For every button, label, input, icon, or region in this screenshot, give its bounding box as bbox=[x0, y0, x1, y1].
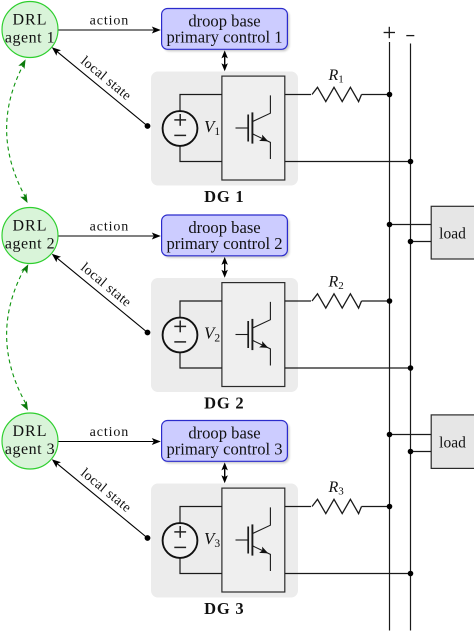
wire negative bus to load 1 bbox=[411, 241, 432, 243]
label local state 1 bbox=[77, 54, 133, 104]
junction dot DG 3-negative bus bbox=[408, 571, 414, 577]
wire source bottom to converter DG 2 bbox=[180, 352, 222, 368]
resistor R3 bbox=[312, 499, 362, 513]
converter box DG 1 bbox=[222, 76, 285, 180]
wire resistor R1 to positive bus bbox=[362, 94, 390, 96]
svg-text:local state: local state bbox=[77, 54, 133, 104]
junction dot DG 2-negative bus bbox=[408, 365, 414, 371]
wire source bottom to converter DG 3 bbox=[180, 558, 222, 574]
action arrow agent 2 to control 2 bbox=[59, 233, 161, 240]
droop base primary control 2 box bbox=[162, 215, 290, 258]
droop base primary control 3 box bbox=[162, 421, 290, 464]
label - (negative bus) bbox=[406, 35, 414, 37]
local state tap dot DG 1 bbox=[145, 123, 151, 129]
svg-text:primary control 3: primary control 3 bbox=[166, 439, 282, 458]
label local state 2 bbox=[77, 260, 133, 310]
converter box DG 2 bbox=[222, 283, 285, 387]
local state tap dot DG 2 bbox=[145, 330, 151, 336]
local state tap dot DG 3 bbox=[145, 535, 151, 541]
wire converter to resistor R2 bbox=[285, 300, 311, 302]
DRL agent 1 bbox=[2, 2, 58, 58]
junction dot R3-positive bus bbox=[387, 504, 393, 510]
local state arrow DG 2 to agent 2 bbox=[52, 254, 148, 333]
wire converter DG 2 to negative bus bbox=[285, 367, 411, 369]
svg-text:DG 3: DG 3 bbox=[204, 599, 244, 618]
wire positive bus to load 1 bbox=[390, 224, 432, 226]
junction dot R1-positive bus bbox=[387, 92, 393, 98]
svg-text:load: load bbox=[439, 225, 466, 242]
svg-text:agent 3: agent 3 bbox=[5, 441, 55, 458]
positive DC bus rail bbox=[389, 42, 391, 631]
label droop base primary control 2 bbox=[166, 218, 282, 253]
svg-text:action: action bbox=[90, 14, 130, 29]
wire source top to converter DG 1 bbox=[180, 95, 222, 112]
bidirectional arrow control 2 to DG 2 bbox=[221, 257, 228, 278]
DRL agent 2 bbox=[2, 208, 58, 264]
svg-text:action: action bbox=[90, 425, 130, 440]
droop base primary control 1 box bbox=[162, 9, 290, 52]
wire converter to resistor R3 bbox=[285, 506, 311, 508]
svg-text:local state: local state bbox=[77, 260, 133, 310]
svg-text:agent 1: agent 1 bbox=[5, 30, 55, 47]
svg-text:primary control 1: primary control 1 bbox=[166, 27, 282, 46]
svg-text:DG 1: DG 1 bbox=[204, 187, 244, 206]
junction dot negative bus-load 1 bbox=[408, 239, 414, 245]
label local state 3 bbox=[77, 466, 133, 516]
negative DC bus rail bbox=[410, 44, 412, 631]
bidirectional arrow control 3 to DG 3 bbox=[221, 462, 228, 483]
wire source bottom to converter DG 1 bbox=[180, 146, 222, 162]
svg-text:DRL: DRL bbox=[13, 12, 48, 29]
converter box DG 3 bbox=[222, 488, 285, 592]
svg-text:local state: local state bbox=[77, 466, 133, 516]
junction dot positive bus-load 2 bbox=[387, 432, 393, 438]
resistor R2 bbox=[312, 294, 362, 308]
DRL agent 3 bbox=[2, 413, 58, 469]
load 2 box bbox=[431, 415, 474, 469]
wire source top to converter DG 2 bbox=[180, 301, 222, 318]
junction dot positive bus-load 1 bbox=[387, 222, 393, 228]
svg-text:DRL: DRL bbox=[13, 423, 48, 440]
bidirectional arrow control 1 to DG 1 bbox=[221, 50, 228, 71]
label droop base primary control 3 bbox=[166, 424, 282, 459]
svg-text:R3: R3 bbox=[328, 479, 345, 497]
svg-text:DG 2: DG 2 bbox=[204, 394, 244, 413]
DG 3 unit box bbox=[151, 484, 298, 598]
wire source top to converter DG 3 bbox=[180, 507, 222, 524]
svg-text:R1: R1 bbox=[328, 67, 344, 85]
voltage source V1 bbox=[163, 111, 198, 146]
local state arrow DG 3 to agent 3 bbox=[52, 459, 148, 538]
action arrow agent 1 to control 1 bbox=[59, 27, 161, 34]
voltage source V2 bbox=[163, 318, 198, 353]
svg-text:DRL: DRL bbox=[13, 218, 48, 235]
action arrow agent 3 to control 3 bbox=[59, 438, 161, 445]
junction dot R2-positive bus bbox=[387, 298, 393, 304]
junction dot negative bus-load 2 bbox=[408, 449, 414, 455]
wire positive bus to load 2 bbox=[390, 434, 432, 436]
junction dot DG 1-negative bus bbox=[408, 159, 414, 165]
voltage source V3 bbox=[163, 523, 198, 558]
svg-text:agent 2: agent 2 bbox=[5, 236, 55, 253]
wire converter DG 1 to negative bus bbox=[285, 161, 411, 163]
IGBT Q2 bbox=[236, 302, 271, 366]
DG 2 unit box bbox=[151, 278, 298, 392]
load 1 box bbox=[431, 206, 474, 259]
label droop base primary control 1 bbox=[166, 12, 282, 47]
svg-text:action: action bbox=[90, 220, 130, 235]
DG 1 unit box bbox=[151, 72, 298, 186]
wire resistor R3 to positive bus bbox=[362, 506, 390, 508]
wire resistor R2 to positive bus bbox=[362, 300, 390, 302]
IGBT Q1 bbox=[236, 95, 271, 159]
svg-text:R2: R2 bbox=[328, 274, 344, 292]
wire negative bus to load 2 bbox=[411, 451, 432, 453]
svg-text:load: load bbox=[439, 435, 466, 452]
svg-text:primary control 2: primary control 2 bbox=[166, 234, 282, 253]
communication link agents 2-3 (dashed green, bidirectional) bbox=[7, 264, 29, 410]
wire converter to resistor R1 bbox=[285, 94, 311, 96]
communication link agents 1-2 (dashed green, bidirectional) bbox=[7, 59, 28, 203]
resistor R1 bbox=[312, 87, 362, 101]
IGBT Q3 bbox=[236, 507, 271, 571]
label + (positive bus) bbox=[384, 27, 395, 38]
local state arrow DG 1 to agent 1 bbox=[52, 47, 148, 126]
wire converter DG 3 to negative bus bbox=[285, 573, 411, 575]
